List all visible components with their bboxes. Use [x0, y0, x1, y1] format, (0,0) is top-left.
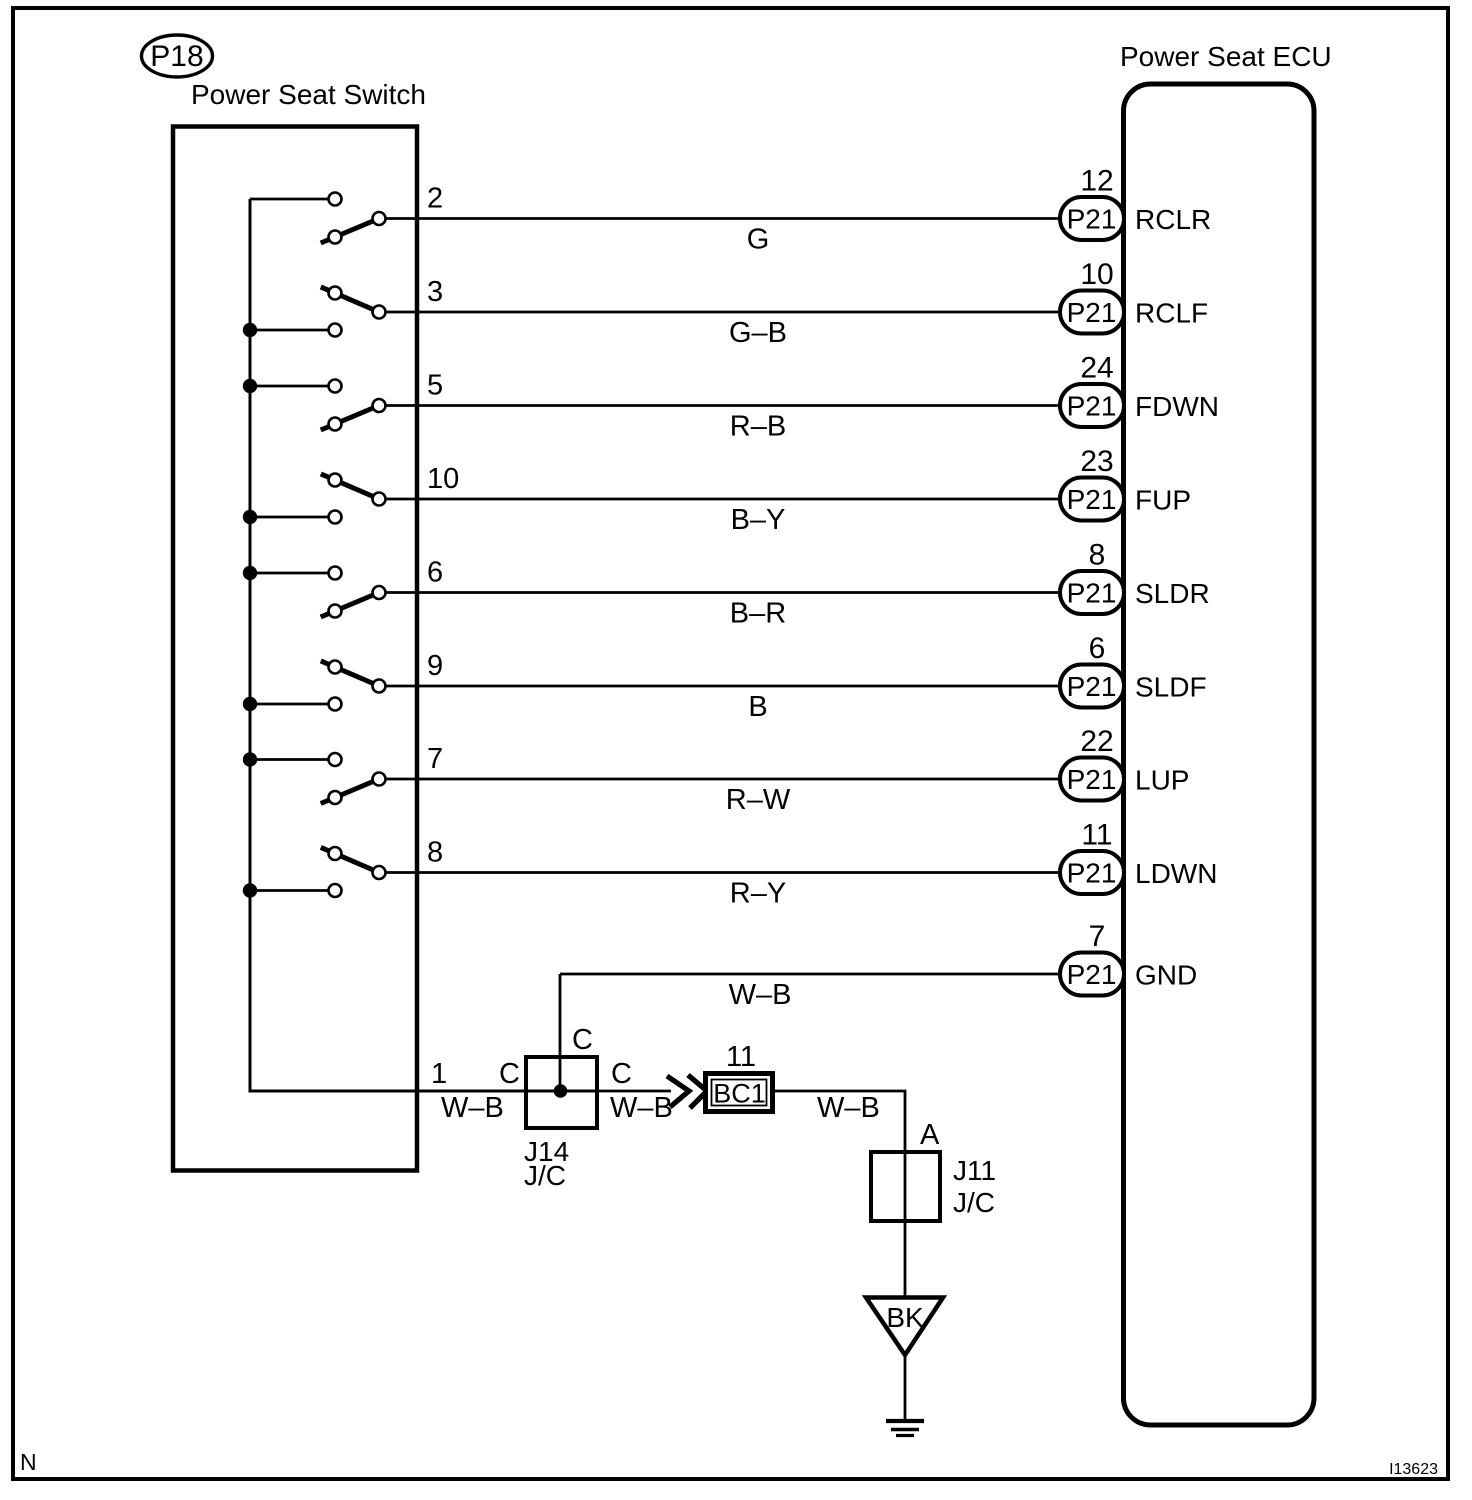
svg-text:11: 11 — [726, 1041, 756, 1073]
svg-text:B: B — [748, 691, 767, 723]
ground symbol line 2 — [891, 1428, 919, 1432]
switch SW1 fixed terminal — [329, 193, 342, 206]
svg-text:Power Seat Switch: Power Seat Switch — [191, 79, 426, 110]
junction J14 node — [554, 1084, 568, 1098]
switch SW7 output terminal — [373, 773, 386, 786]
wire pin 6 to P21 (SLDR) — [379, 591, 1062, 594]
svg-text:BC1: BC1 — [713, 1079, 766, 1109]
power seat ECU box — [1124, 84, 1315, 1425]
svg-text:R–Y: R–Y — [730, 878, 786, 910]
svg-text:J11: J11 — [953, 1155, 996, 1186]
ground symbol line 1 — [886, 1419, 924, 1423]
junction bus node SW4 — [243, 510, 257, 524]
svg-text:5: 5 — [427, 370, 443, 402]
svg-text:FDWN: FDWN — [1135, 391, 1219, 422]
connector P21 pin 23 — [1060, 478, 1124, 521]
svg-text:8: 8 — [1089, 539, 1106, 572]
wire J14 to GND run — [559, 974, 562, 1091]
wire GND (W-B) to P21 — [560, 973, 1062, 976]
svg-text:P21: P21 — [1067, 391, 1117, 422]
svg-text:8: 8 — [427, 837, 443, 869]
svg-text:6: 6 — [427, 557, 443, 589]
junction bus node SW6 — [243, 697, 257, 711]
switch SW8 arm — [321, 847, 379, 872]
svg-text:3: 3 — [427, 276, 443, 308]
svg-text:22: 22 — [1080, 725, 1113, 758]
junction bus node SW5 — [243, 566, 257, 580]
svg-text:11: 11 — [1081, 819, 1112, 852]
svg-text:LDWN: LDWN — [1135, 858, 1217, 889]
connector P21 pin 12 — [1060, 197, 1124, 240]
switch SW1 arm terminal — [329, 231, 342, 244]
svg-text:P21: P21 — [1067, 204, 1117, 235]
splice arrow chevron 2 — [688, 1075, 707, 1108]
switch SW4 fixed terminal — [329, 511, 342, 524]
wire pin 8 to P21 (LDWN) — [379, 871, 1062, 874]
switch SW7 fixed terminal — [329, 753, 342, 766]
svg-text:W–B: W–B — [817, 1092, 880, 1124]
connector P21 pin 8 — [1060, 571, 1124, 614]
connector P21 pin 24 — [1060, 384, 1124, 427]
switch SW4 arm terminal — [329, 474, 342, 487]
svg-text:SLDR: SLDR — [1135, 578, 1210, 609]
connector P21 pin 6 — [1060, 665, 1124, 708]
splice arrow chevron 1 — [667, 1076, 689, 1107]
junction bus node SW7 — [243, 752, 257, 766]
junction bus node SW3 — [243, 379, 257, 393]
ground triangle BK — [866, 1298, 943, 1356]
switch SW3 arm terminal — [329, 418, 342, 431]
svg-text:I13623: I13623 — [1389, 1461, 1438, 1478]
power seat switch box — [173, 127, 417, 1171]
switch SW7 arm terminal — [329, 791, 342, 804]
wire bus stub switch SW8 — [250, 889, 335, 892]
svg-text:J/C: J/C — [524, 1160, 566, 1191]
wire J14 to BC1 — [597, 1090, 671, 1093]
wire bus stub switch SW2 — [250, 329, 335, 332]
svg-text:N: N — [20, 1449, 37, 1475]
switch SW3 arm — [321, 406, 379, 431]
svg-text:G: G — [747, 224, 770, 256]
wire pin 5 to P21 (FDWN) — [379, 404, 1062, 407]
svg-text:G–B: G–B — [729, 317, 787, 349]
svg-text:7: 7 — [1089, 920, 1106, 953]
bus wire (switch common) — [250, 199, 597, 1091]
switch SW5 fixed terminal — [329, 567, 342, 580]
wire bus stub switch SW3 — [250, 385, 335, 388]
svg-text:P18: P18 — [150, 40, 203, 73]
svg-text:RCLF: RCLF — [1135, 298, 1208, 329]
switch SW6 output terminal — [373, 680, 386, 693]
svg-text:1: 1 — [431, 1058, 447, 1090]
connector P21 pin 7 (GND) — [1060, 953, 1124, 996]
svg-text:Power Seat ECU: Power Seat ECU — [1120, 41, 1332, 72]
connector P21 pin 22 — [1060, 758, 1124, 801]
svg-text:R–B: R–B — [730, 411, 786, 443]
svg-text:C: C — [572, 1024, 593, 1056]
svg-text:SLDF: SLDF — [1135, 672, 1207, 703]
wire pin 2 to P21 (RCLR) — [379, 217, 1062, 220]
connector BC1 inner box — [712, 1080, 767, 1106]
svg-text:C: C — [499, 1058, 520, 1090]
svg-text:J/C: J/C — [953, 1187, 995, 1218]
ground symbol line 3 — [896, 1434, 914, 1437]
svg-text:C: C — [611, 1058, 632, 1090]
switch SW2 arm — [321, 287, 379, 312]
svg-text:W–B: W–B — [610, 1092, 673, 1124]
switch SW8 fixed terminal — [329, 884, 342, 897]
svg-text:RCLR: RCLR — [1135, 204, 1211, 235]
wire pin 7 to P21 (LUP) — [379, 778, 1062, 781]
switch SW2 output terminal — [373, 306, 386, 319]
svg-text:P21: P21 — [1067, 484, 1117, 515]
connector P21 pin 11 — [1060, 851, 1124, 894]
svg-text:2: 2 — [427, 183, 443, 215]
svg-text:P21: P21 — [1067, 297, 1117, 328]
switch SW6 arm terminal — [329, 661, 342, 674]
switch SW4 output terminal — [373, 493, 386, 506]
svg-text:10: 10 — [1080, 258, 1113, 291]
switch SW1 output terminal — [373, 212, 386, 225]
svg-text:P21: P21 — [1067, 578, 1117, 609]
wire bus stub switch SW6 — [250, 703, 335, 706]
connector P21 pin 10 — [1060, 291, 1124, 334]
wire bus stub switch SW5 — [250, 572, 335, 575]
svg-text:R–W: R–W — [726, 784, 791, 816]
switch SW6 arm — [321, 661, 379, 686]
svg-text:P21: P21 — [1067, 858, 1117, 889]
wire bus stub switch SW7 — [250, 758, 335, 761]
svg-text:FUP: FUP — [1135, 485, 1191, 516]
svg-text:P21: P21 — [1067, 764, 1117, 795]
switch SW2 fixed terminal — [329, 324, 342, 337]
svg-text:BK: BK — [886, 1302, 924, 1333]
connector BC1 box — [706, 1074, 773, 1112]
connector P18 oval — [142, 35, 213, 77]
wire pin 9 to P21 (SLDF) — [379, 685, 1062, 688]
wire pin 3 to P21 (RCLF) — [379, 311, 1062, 314]
svg-text:P21: P21 — [1067, 671, 1117, 702]
wire pin 10 to P21 (FUP) — [379, 498, 1062, 501]
svg-text:B–Y: B–Y — [731, 504, 786, 536]
svg-text:B–R: B–R — [730, 598, 786, 630]
switch SW3 fixed terminal — [329, 380, 342, 393]
svg-text:10: 10 — [427, 463, 459, 495]
wire bus stub switch SW1 — [250, 198, 335, 201]
svg-text:23: 23 — [1080, 445, 1113, 478]
svg-text:6: 6 — [1089, 632, 1106, 665]
switch SW8 arm terminal — [329, 847, 342, 860]
switch SW5 arm terminal — [329, 605, 342, 618]
wire bus stub switch SW4 — [250, 516, 335, 519]
switch SW1 arm — [321, 219, 379, 244]
svg-text:LUP: LUP — [1135, 765, 1189, 796]
svg-text:W–B: W–B — [441, 1092, 504, 1124]
switch SW7 arm — [321, 779, 379, 804]
svg-text:12: 12 — [1080, 165, 1113, 198]
junction bus node SW8 — [243, 883, 257, 897]
svg-text:W–B: W–B — [729, 979, 792, 1011]
svg-text:9: 9 — [427, 650, 443, 682]
switch SW5 output terminal — [373, 586, 386, 599]
switch SW3 output terminal — [373, 399, 386, 412]
junction J14 box — [526, 1057, 597, 1128]
switch SW4 arm — [321, 474, 379, 499]
junction J11 box — [871, 1152, 940, 1221]
svg-text:7: 7 — [427, 743, 443, 775]
svg-text:GND: GND — [1135, 960, 1197, 991]
svg-text:A: A — [920, 1119, 940, 1151]
junction bus node SW2 — [243, 323, 257, 337]
switch SW8 output terminal — [373, 866, 386, 879]
wire BC1 to ground drop — [773, 1091, 905, 1419]
switch SW5 arm — [321, 593, 379, 618]
svg-text:P21: P21 — [1067, 959, 1117, 990]
switch SW6 fixed terminal — [329, 698, 342, 711]
svg-text:24: 24 — [1080, 352, 1113, 385]
switch SW2 arm terminal — [329, 287, 342, 300]
